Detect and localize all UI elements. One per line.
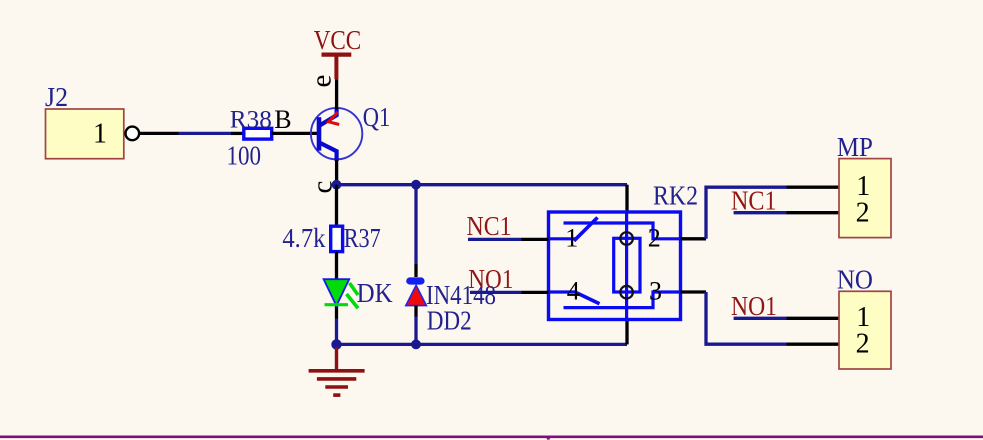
cathode bar [410, 277, 421, 284]
diode DD2 IN4148 [406, 280, 496, 336]
relay RK2 [549, 181, 699, 320]
wire DD2 bottom lead (black) [414, 306, 417, 317]
svg-text:1: 1 [93, 119, 107, 150]
anode triangle [406, 285, 427, 305]
svg-text:B: B [274, 105, 291, 134]
svg-text:NC1: NC1 [467, 211, 512, 241]
wire NC1 to relay pin 1 (navy) [468, 238, 522, 241]
wire DD2 branch bottom (navy) [414, 317, 417, 345]
wire relay coil top lead (black) [625, 185, 628, 213]
svg-text:4: 4 [567, 276, 580, 305]
contact arm bottom [576, 293, 600, 304]
PNP arrow (red) [329, 112, 340, 124]
contact arm top [574, 218, 598, 241]
svg-text:4.7k: 4.7k [282, 223, 325, 253]
pin circle of J2 [126, 127, 140, 141]
wire top net horizontal [337, 183, 628, 186]
svg-text:2: 2 [856, 198, 870, 229]
wire NO1 right (navy) [734, 317, 787, 320]
cathode bar [325, 303, 349, 306]
svg-text:J2: J2 [45, 82, 68, 112]
wire R38 left lead [231, 132, 244, 135]
svg-text:2: 2 [856, 328, 870, 359]
fixed contact bottom line [564, 292, 681, 308]
wire relay pin 3 to NO pin 2 (navy) [706, 292, 787, 344]
wire LED to bottom net [335, 319, 338, 345]
wire NO1 to relay pin 4 (navy) [470, 291, 522, 294]
collector stroke [320, 143, 337, 161]
contact pin 1 line [549, 237, 576, 240]
light ray 1 [350, 283, 359, 295]
coil bottom terminal circle [620, 286, 633, 299]
node DD2 top junction [411, 180, 421, 190]
wire MP pin 1 lead (black) [787, 186, 840, 189]
wire relay pin 3 lead (black) [681, 290, 707, 293]
light ray 2 [347, 294, 359, 308]
coil vertical wire [625, 212, 628, 320]
svg-text:100: 100 [227, 141, 262, 171]
svg-text:R38: R38 [230, 105, 272, 134]
svg-text:2: 2 [648, 224, 661, 253]
svg-text:Q1: Q1 [363, 102, 391, 132]
wire relay pin 4 lead (black) [522, 291, 549, 294]
wire R38 to Q1 base [272, 132, 318, 135]
node collector junction [332, 180, 342, 190]
wire relay pin 1 lead (black) [522, 238, 549, 241]
wire relay coil bottom lead (black) [625, 320, 628, 345]
resistor R37 [282, 223, 380, 253]
svg-text:MP: MP [837, 132, 873, 162]
wire MP pin 2 lead (black) [787, 211, 840, 214]
wire NO pin 2 lead (black) [787, 343, 840, 346]
wire J2 to R38 (navy) [179, 132, 232, 135]
wire bottom net horizontal [337, 343, 628, 346]
svg-text:3: 3 [649, 277, 662, 306]
wire NC1 right (navy) [734, 211, 787, 214]
wire DD2 branch top (navy) [414, 185, 417, 264]
svg-text:NC1: NC1 [731, 185, 777, 215]
connector NO [837, 265, 891, 370]
ground [309, 347, 365, 395]
base bar [317, 117, 322, 150]
svg-text:VCC: VCC [314, 25, 362, 55]
wire DD2 top lead (black) [414, 264, 417, 277]
node ground junction [331, 339, 341, 349]
emitter stroke [320, 109, 337, 126]
node DD2 bottom junction [411, 340, 421, 350]
svg-text:RK2: RK2 [653, 181, 698, 211]
svg-text:DK: DK [357, 278, 393, 308]
wire J2 pin lead (black) [139, 132, 179, 135]
LED DK [324, 278, 393, 309]
relay body box [549, 212, 681, 320]
contact pin 4 line [549, 290, 576, 293]
wire R37 to LED [335, 252, 338, 319]
fixed contact top line [564, 223, 681, 239]
transistor Q1 [306, 75, 391, 194]
coil top terminal circle [620, 232, 633, 245]
connector J2 [45, 82, 139, 159]
svg-text:DD2: DD2 [427, 305, 472, 335]
svg-text:NO1: NO1 [731, 291, 777, 321]
resistor R38 [227, 105, 292, 171]
wire R37 top lead [335, 185, 338, 227]
wire relay pin 2 lead (black) [681, 237, 707, 240]
svg-text:e: e [306, 75, 338, 88]
coil rectangle [614, 238, 640, 292]
wire Q1 emitter lead up [335, 79, 338, 109]
connector MP [837, 132, 891, 237]
svg-text:R37: R37 [344, 223, 381, 253]
wire NO pin 1 lead (black) [787, 317, 840, 320]
wire relay pin 2 to MP pin 1 (navy) [706, 187, 787, 239]
svg-text:NO: NO [837, 265, 873, 295]
power VCC [314, 25, 362, 79]
svg-text:NO1: NO1 [468, 264, 513, 294]
wire Q1 collector lead down [335, 160, 338, 185]
svg-text:1: 1 [565, 224, 578, 253]
